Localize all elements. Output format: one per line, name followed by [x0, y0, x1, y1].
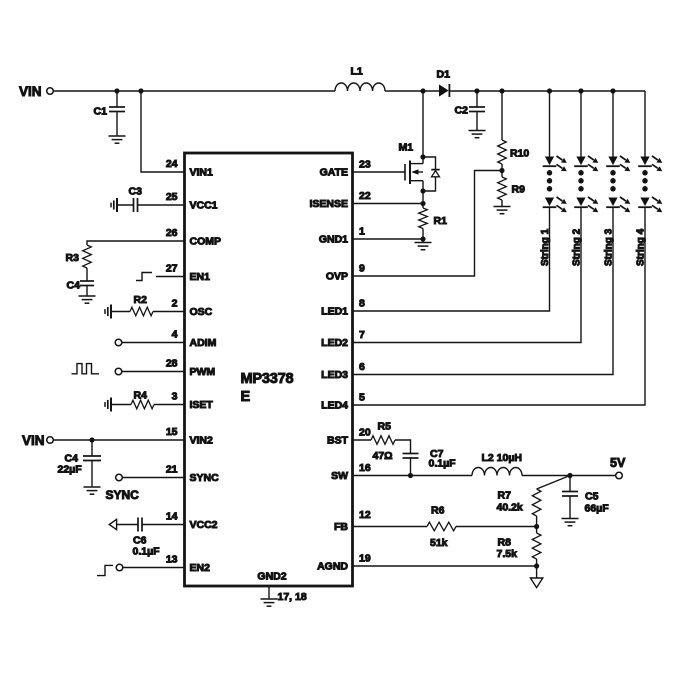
- body diode of M1: [423, 157, 440, 191]
- svg-text:LED1: LED1: [321, 306, 348, 318]
- svg-text:51k: 51k: [430, 537, 448, 549]
- svg-text:VCC1: VCC1: [190, 200, 218, 212]
- svg-text:EN2: EN2: [190, 562, 211, 574]
- svg-text:OVP: OVP: [326, 271, 348, 283]
- resistor R1: [419, 208, 447, 229]
- svg-text:5V: 5V: [610, 456, 626, 470]
- pin 22 ISENSE: [309, 190, 370, 210]
- ground below C4: [84, 487, 101, 494]
- svg-text:2: 2: [172, 298, 178, 310]
- wire R7 to FB: [536, 516, 538, 533]
- svg-text:40.2k: 40.2k: [497, 502, 523, 514]
- diode D1: [437, 69, 451, 98]
- svg-text:L1: L1: [351, 66, 363, 78]
- wire R8 to analog ground: [536, 559, 538, 578]
- svg-text:R4: R4: [134, 390, 148, 402]
- wire FB stub: [353, 526, 428, 528]
- wire BST stub: [353, 439, 372, 441]
- svg-text:25: 25: [166, 191, 178, 203]
- svg-text:ADIM: ADIM: [190, 337, 217, 349]
- svg-text:LED4: LED4: [321, 400, 348, 412]
- capacitor C6: [117, 518, 185, 558]
- inductor L2 10uH: [472, 452, 522, 476]
- label String 2: [572, 228, 583, 266]
- svg-text:47Ω: 47Ω: [373, 450, 393, 462]
- terminal VIN (top input): [19, 84, 53, 99]
- transistor M1: [399, 142, 424, 185]
- ellipsis dots string 1: [547, 171, 552, 192]
- pin 14 VCC2: [166, 511, 218, 532]
- svg-text:MP3378: MP3378: [241, 371, 294, 387]
- svg-text:VIN2: VIN2: [190, 435, 214, 447]
- svg-text:ISENSE: ISENSE: [309, 198, 348, 210]
- pin 21 SYNC: [166, 464, 219, 485]
- analog ground triangle: [530, 578, 542, 588]
- pin 19 AGND: [317, 553, 371, 573]
- svg-text:26: 26: [166, 227, 178, 239]
- svg-text:9: 9: [359, 263, 365, 275]
- ground below R1: [415, 243, 432, 250]
- junction GND1 tap: [421, 237, 425, 241]
- svg-text:VIN: VIN: [19, 84, 42, 99]
- svg-text:C3: C3: [129, 186, 143, 198]
- wire to pin EN1: [156, 276, 185, 278]
- junction AGND node: [535, 564, 539, 568]
- capacitor C2: [455, 91, 486, 131]
- svg-text:3: 3: [172, 391, 178, 403]
- svg-text:ISET: ISET: [190, 399, 214, 411]
- resistor R5 47ohm: [371, 421, 395, 463]
- pin 27 EN1: [166, 263, 210, 284]
- sideways ground at C3: [111, 198, 117, 212]
- LED D3b string 3: [606, 197, 630, 212]
- wire string 4 return to LED4 pin: [353, 207, 646, 405]
- svg-text:GND1: GND1: [319, 234, 348, 246]
- svg-text:1: 1: [359, 226, 365, 238]
- resistor R9: [498, 177, 525, 200]
- pin 16 SW: [331, 462, 371, 482]
- svg-text:12: 12: [359, 509, 371, 521]
- svg-text:R9: R9: [512, 184, 526, 196]
- label String 4: [636, 228, 647, 266]
- svg-text:R7: R7: [498, 490, 512, 502]
- capacitor C4 22uF: [58, 440, 102, 487]
- svg-text:22µF: 22µF: [58, 464, 83, 476]
- pin 1 GND1: [319, 226, 365, 246]
- svg-text:E: E: [241, 389, 251, 405]
- svg-text:SYNC: SYNC: [106, 488, 140, 502]
- junction ISENSE tap: [421, 201, 425, 205]
- pin 4 ADIM: [172, 329, 217, 350]
- sideways ground at R4: [105, 398, 111, 412]
- terminal PWM: [115, 368, 184, 375]
- resistor R3: [66, 245, 92, 268]
- svg-text:LED3: LED3: [321, 369, 348, 381]
- svg-text:8: 8: [359, 298, 365, 310]
- LED D1b string 1: [543, 197, 567, 212]
- svg-text:C5: C5: [585, 491, 599, 503]
- wire source of M1: [422, 181, 424, 208]
- terminal ADIM: [115, 339, 184, 346]
- svg-text:R5: R5: [378, 421, 392, 433]
- svg-text:C2: C2: [455, 105, 469, 117]
- svg-text:R3: R3: [66, 252, 80, 264]
- svg-text:VIN1: VIN1: [190, 167, 214, 179]
- resistor R2: [111, 294, 185, 316]
- sideways ground at R2: [105, 305, 111, 319]
- svg-text:15: 15: [166, 426, 178, 438]
- wire string 2 from rail: [580, 91, 582, 157]
- svg-text:R10: R10: [510, 148, 529, 160]
- svg-text:EN1: EN1: [190, 271, 211, 283]
- wire GND1 to R1 ground: [353, 238, 424, 240]
- pin 28 PWM: [166, 358, 216, 379]
- label String 1: [540, 228, 551, 266]
- svg-text:0.1µF: 0.1µF: [429, 458, 457, 470]
- svg-text:6: 6: [359, 361, 365, 373]
- svg-text:21: 21: [166, 464, 178, 476]
- pin 23 GATE: [320, 159, 371, 179]
- svg-text:C4: C4: [67, 280, 81, 292]
- resistor R6 51k: [427, 505, 456, 550]
- ellipsis dots string 4: [643, 171, 648, 192]
- square wave symbol PWM: [72, 364, 100, 374]
- svg-text:String 3: String 3: [604, 228, 615, 266]
- pin 13 EN2: [166, 554, 210, 575]
- junction C1 tap: [115, 89, 119, 93]
- svg-text:27: 27: [166, 263, 178, 275]
- ground below C4 comp: [79, 296, 96, 303]
- svg-text:7.5k: 7.5k: [497, 548, 518, 560]
- wire R9 to ground: [501, 200, 503, 207]
- svg-text:FB: FB: [334, 521, 348, 533]
- capacitor C5 66uF: [562, 476, 609, 519]
- svg-text:GND2: GND2: [257, 571, 286, 583]
- LED D2b string 2: [574, 197, 598, 212]
- pin 2 OSC: [172, 298, 213, 319]
- wire ISENSE to M1 source: [353, 203, 424, 205]
- svg-text:4: 4: [172, 329, 178, 341]
- svg-text:5: 5: [359, 392, 365, 404]
- wire D1 to LED rail: [450, 90, 645, 92]
- svg-text:7: 7: [359, 329, 365, 341]
- svg-text:R1: R1: [434, 215, 448, 227]
- wire rail to R10: [501, 91, 503, 140]
- junction string 1 tap: [547, 89, 551, 93]
- resistor R8 7.5k: [497, 533, 541, 560]
- junction C5 tap: [568, 473, 572, 477]
- svg-text:D1: D1: [437, 69, 451, 81]
- junction string 3 tap: [611, 89, 615, 93]
- wire R3 to C4: [86, 268, 88, 281]
- LED D2a string 2: [574, 156, 598, 171]
- svg-text:COMP: COMP: [190, 236, 222, 248]
- resistor R4: [111, 390, 185, 409]
- wire L2 to 5V: [522, 475, 616, 477]
- wire R1 to ground: [422, 229, 424, 243]
- pin 12 FB: [334, 509, 371, 533]
- junction FB node: [535, 524, 539, 528]
- ground below GND2: [261, 599, 278, 606]
- IC U1 MP3378E body: [185, 153, 353, 586]
- wire R5 to C7: [395, 440, 411, 454]
- svg-text:L2 10µH: L2 10µH: [482, 452, 522, 464]
- LED D4a string 4: [638, 156, 662, 171]
- label String 3: [604, 228, 615, 266]
- ground below R9: [494, 207, 511, 214]
- svg-text:AGND: AGND: [317, 561, 348, 573]
- junction C4 tap: [90, 438, 94, 442]
- svg-text:GATE: GATE: [320, 167, 348, 179]
- junction source node: [421, 189, 425, 193]
- wire 5V node to R7: [537, 476, 570, 490]
- ellipsis dots string 2: [579, 171, 584, 192]
- wire string 4 from rail: [644, 91, 646, 157]
- wire string 1 return to LED1 pin: [353, 207, 550, 311]
- wire SW to L2: [353, 475, 473, 477]
- junction M1 drain tap: [421, 89, 425, 93]
- svg-text:22: 22: [359, 190, 371, 202]
- svg-text:String 4: String 4: [636, 228, 647, 266]
- svg-text:String 2: String 2: [572, 228, 583, 266]
- svg-text:0.1µF: 0.1µF: [133, 546, 161, 558]
- svg-text:17, 18: 17, 18: [278, 591, 307, 603]
- pin 24 VIN1: [166, 158, 213, 179]
- svg-text:String 1: String 1: [540, 228, 551, 266]
- pin 20 BST: [327, 427, 371, 447]
- wire string 3 return to LED3 pin: [353, 207, 614, 374]
- pin 26 COMP: [166, 227, 221, 248]
- svg-text:R6: R6: [431, 505, 445, 517]
- svg-text:PWM: PWM: [190, 366, 216, 378]
- terminal SYNC: [106, 474, 185, 502]
- wire OVP feedback: [353, 171, 503, 277]
- junction VIN1 tap: [139, 89, 143, 93]
- terminal 5V output: [610, 456, 626, 479]
- pin 7 LED2: [321, 329, 365, 349]
- wire drain of M1: [422, 91, 424, 164]
- ground below C5: [562, 519, 579, 526]
- pin 15 VIN2: [166, 426, 213, 447]
- pin 3 ISET: [172, 391, 214, 412]
- svg-text:14: 14: [166, 511, 178, 523]
- svg-text:16: 16: [359, 462, 371, 474]
- wire string 1 from rail: [549, 91, 551, 157]
- svg-text:SYNC: SYNC: [190, 472, 220, 484]
- pin 5 LED4: [321, 392, 365, 412]
- svg-text:VCC2: VCC2: [190, 519, 218, 531]
- wire GATE to M1: [353, 171, 406, 173]
- svg-text:LED2: LED2: [321, 337, 348, 349]
- inductor L1: [335, 66, 385, 92]
- LED D4b string 4: [638, 197, 662, 212]
- capacitor C7 0.1uF: [403, 448, 457, 476]
- svg-text:R8: R8: [498, 537, 512, 549]
- wire VIN to pin VIN2: [53, 439, 184, 441]
- wire string 3 from rail: [612, 91, 614, 157]
- resistor R7 40.2k: [497, 489, 541, 516]
- capacitor C3: [117, 186, 185, 213]
- resistor R10: [498, 140, 530, 164]
- enable edge symbol EN2: [97, 565, 113, 575]
- wire to pin VIN1: [141, 91, 185, 172]
- terminal VIN (bottom input): [22, 433, 53, 448]
- svg-text:VIN: VIN: [22, 433, 45, 448]
- svg-text:20: 20: [359, 427, 371, 439]
- wire string 2 return to LED2 pin: [353, 207, 582, 342]
- ellipsis dots string 3: [611, 171, 616, 192]
- svg-text:BST: BST: [327, 435, 349, 447]
- wire R10 to R9: [501, 164, 503, 177]
- pin 9 OVP: [326, 263, 365, 283]
- pin 17, 18 GND2: [257, 571, 306, 604]
- terminal EN2: [116, 564, 184, 571]
- svg-text:13: 13: [166, 554, 178, 566]
- junction C2 tap: [475, 89, 479, 93]
- svg-text:28: 28: [166, 358, 178, 370]
- pin 25 VCC1: [166, 191, 218, 212]
- svg-text:19: 19: [359, 553, 371, 565]
- wire L1 to D1: [385, 90, 439, 92]
- wire COMP branch: [87, 241, 185, 245]
- junction body diode top: [421, 155, 425, 159]
- svg-text:OSC: OSC: [190, 306, 213, 318]
- svg-text:SW: SW: [331, 470, 348, 482]
- junction R10 tap: [500, 89, 504, 93]
- wire R6 to R7/R8 node: [456, 526, 537, 528]
- signal arrow at C6: [109, 519, 116, 529]
- capacitor C1: [94, 91, 126, 136]
- svg-text:M1: M1: [399, 142, 414, 154]
- svg-text:C1: C1: [94, 106, 108, 118]
- wire AGND: [353, 565, 537, 567]
- svg-text:66µF: 66µF: [585, 503, 610, 515]
- enable edge symbol EN1: [136, 273, 152, 281]
- ground below C1: [109, 136, 126, 143]
- junction string 2 tap: [579, 89, 583, 93]
- svg-text:24: 24: [166, 158, 178, 170]
- svg-text:23: 23: [359, 159, 371, 171]
- LED D1a string 1: [543, 156, 567, 171]
- junction C7 to SW: [408, 473, 412, 477]
- pin 8 LED1: [321, 298, 365, 318]
- LED D3a string 3: [606, 156, 630, 171]
- junction OVP tap: [500, 168, 504, 172]
- capacitor C4 (comp): [67, 280, 95, 297]
- pin 6 LED3: [321, 361, 365, 381]
- svg-text:R2: R2: [134, 294, 148, 306]
- wire VIN to L1: [53, 90, 335, 92]
- ground below C2: [469, 131, 486, 138]
